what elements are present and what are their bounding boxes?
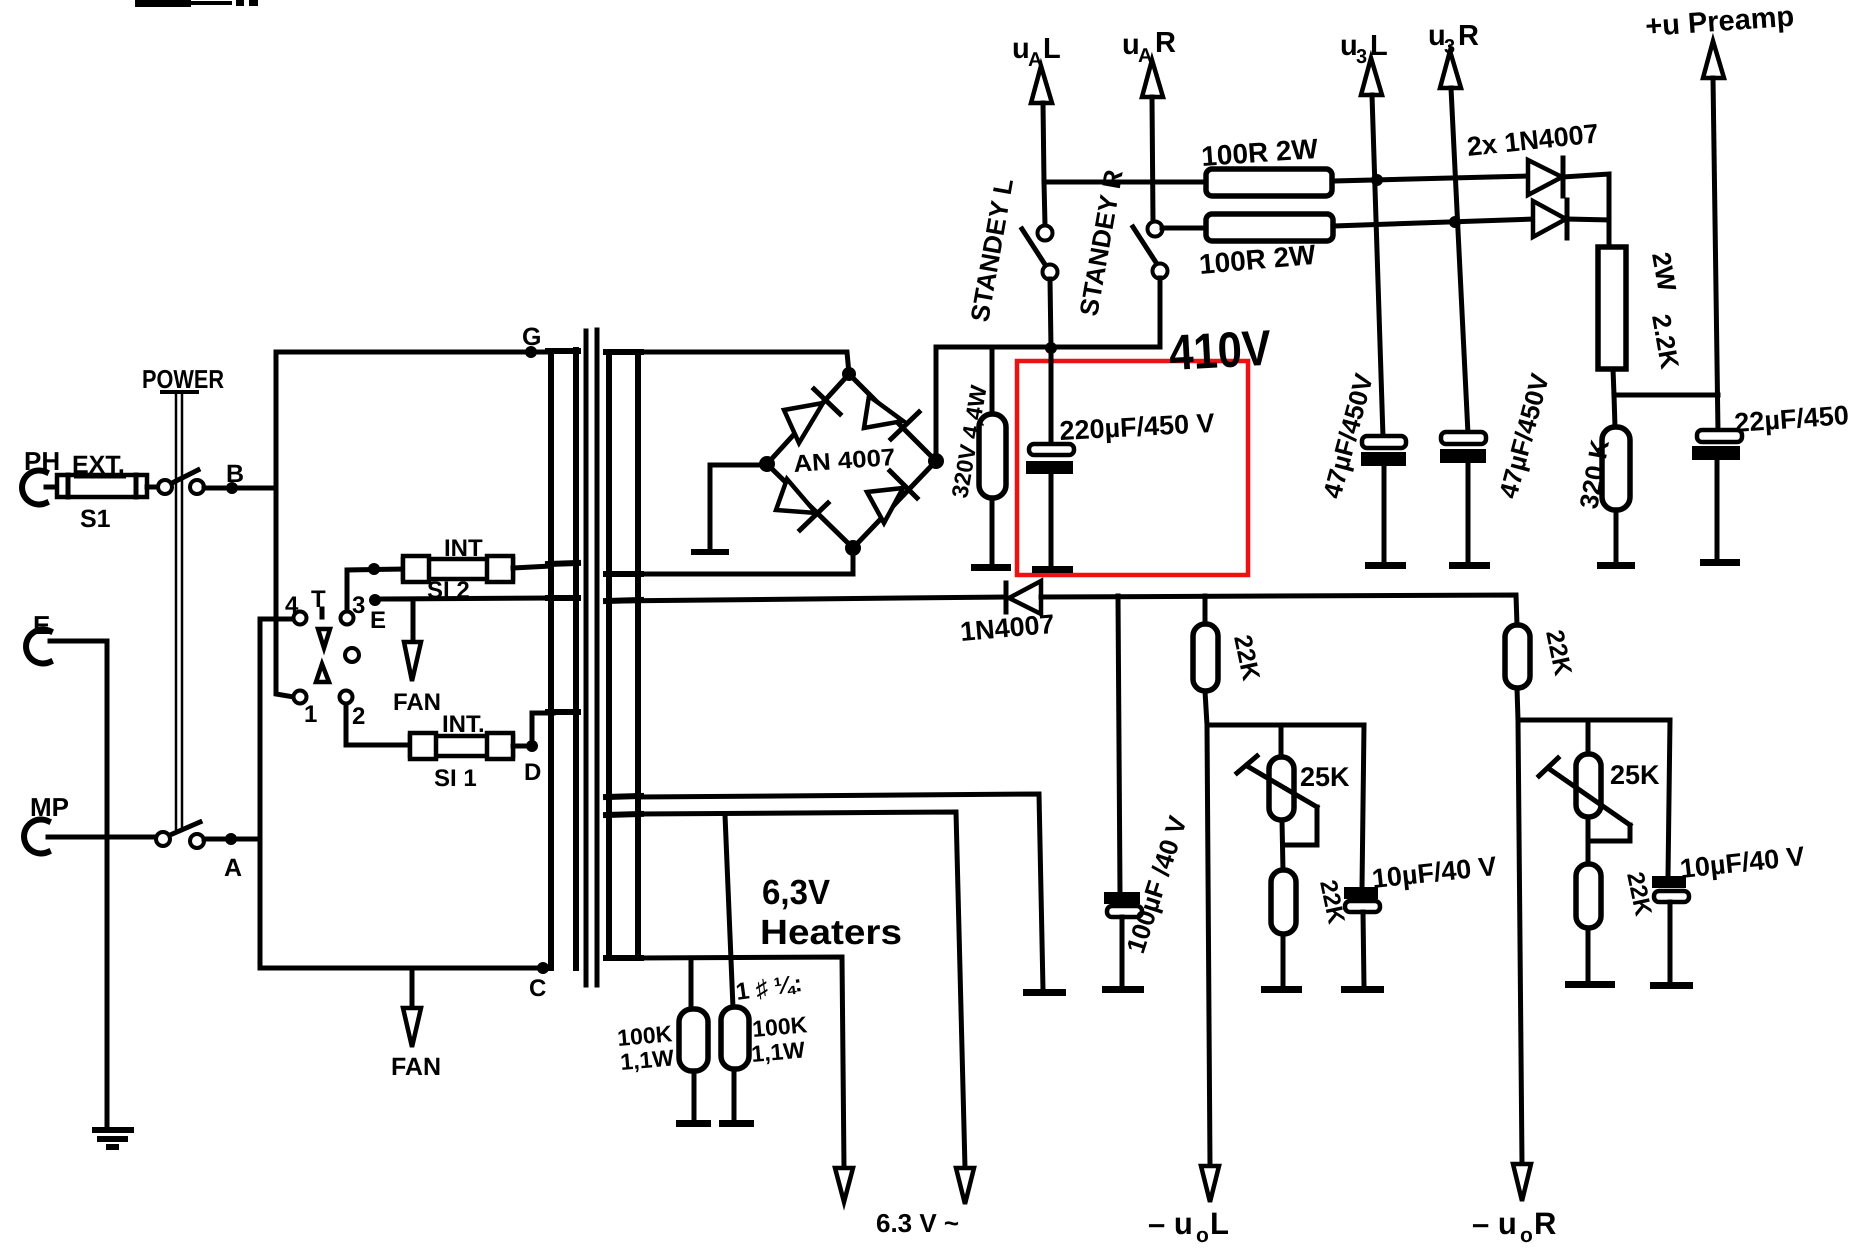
svg-text:1,1W: 1,1W (750, 1036, 806, 1067)
svg-text:R: R (1458, 20, 1479, 52)
svg-text:L: L (1210, 1206, 1229, 1241)
svg-text:A: A (224, 854, 242, 882)
svg-text:6,3V: 6,3V (762, 873, 831, 912)
svg-text:6.3 V ~: 6.3 V ~ (876, 1208, 959, 1238)
svg-text:Heaters: Heaters (760, 913, 902, 952)
svg-text:R: R (1155, 27, 1176, 59)
svg-text:o: o (1520, 1224, 1533, 1247)
svg-text:G: G (522, 323, 541, 351)
svg-text:– u: – u (1148, 1206, 1193, 1241)
svg-text:o: o (1196, 1224, 1209, 1247)
svg-text:E: E (370, 607, 386, 634)
svg-text:3: 3 (352, 592, 365, 619)
svg-text:E: E (33, 610, 50, 640)
svg-text:R: R (1534, 1206, 1556, 1241)
svg-text:FAN: FAN (391, 1053, 441, 1081)
svg-text:410V: 410V (1168, 320, 1273, 381)
svg-text:POWER: POWER (142, 364, 224, 394)
svg-text:1,1W: 1,1W (619, 1044, 675, 1075)
svg-text:L: L (1043, 33, 1061, 65)
svg-text:2: 2 (352, 703, 365, 730)
svg-text:25K: 25K (1300, 762, 1350, 792)
svg-text:C: C (529, 975, 546, 1002)
svg-text:1: 1 (304, 701, 317, 728)
svg-text:SI 1: SI 1 (434, 765, 477, 792)
svg-text:FAN: FAN (393, 689, 441, 716)
svg-text:S1: S1 (80, 505, 111, 533)
svg-text:25K: 25K (1610, 760, 1660, 790)
svg-text:– u: – u (1472, 1206, 1517, 1241)
svg-text:3: 3 (1356, 46, 1367, 68)
svg-text:D: D (524, 759, 541, 786)
svg-text:EXT.: EXT. (72, 451, 125, 479)
svg-text:B: B (226, 460, 244, 488)
svg-text:4: 4 (285, 592, 299, 619)
